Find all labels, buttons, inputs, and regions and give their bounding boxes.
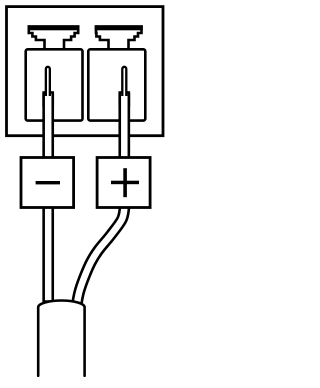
- wire from terminal 1 inner white core: [45, 94, 52, 300]
- minus sign: [36, 181, 60, 184]
- plus sign vertical bar: [123, 168, 127, 197]
- terminal 2 clamp bar (right): [95, 25, 143, 30]
- wire from terminal 1 (negative, straight) outer: [42, 91, 54, 302]
- terminal 2 clamp cap (stepped screw top, right): [96, 27, 142, 50]
- terminal 1 pin slot (left): [46, 67, 50, 96]
- cable jacket: [38, 301, 84, 376]
- terminal 1 clamp cap (stepped screw top, left): [29, 27, 78, 50]
- negative terminal box: [21, 158, 74, 208]
- wire 1 rounded top: [42, 91, 54, 109]
- 2-pin terminal block connector diagram: [0, 0, 180, 388]
- wire from terminal 2 (positive, curved) outer: [77, 91, 124, 302]
- terminal 1 clamp bar (left): [28, 25, 80, 30]
- wire from terminal 2 inner white core: [77, 94, 124, 302]
- terminal 1 body (left): [26, 49, 83, 120]
- positive terminal box: [97, 158, 150, 208]
- connector housing outline: [7, 7, 164, 136]
- wire 2 rounded top: [118, 91, 130, 109]
- terminal 2 pin slot (right): [122, 67, 126, 96]
- plus sign horizontal bar: [111, 181, 139, 185]
- terminal 2 body (right): [88, 49, 145, 120]
